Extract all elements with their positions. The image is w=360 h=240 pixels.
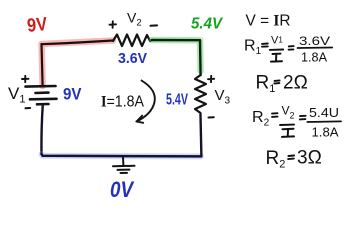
svg-text:5.4V: 5.4V xyxy=(166,92,188,109)
svg-text:I=1.8A: I=1.8A xyxy=(101,94,144,111)
wire: bottom rail (0V net, blue) xyxy=(42,154,202,156)
resistor R2 polarity + xyxy=(208,76,214,82)
svg-text:3.6V: 3.6V xyxy=(299,34,330,48)
resistor R1 (top, labelled V2 = 3.6V) zigzag xyxy=(113,35,152,47)
svg-text:0V: 0V xyxy=(110,177,135,202)
resistor R2 polarity - xyxy=(209,116,214,118)
svg-text:3Ω: 3Ω xyxy=(297,148,322,169)
svg-text:9V: 9V xyxy=(26,14,48,37)
current direction arrow (clockwise arc) xyxy=(137,81,155,123)
equation R1 = 2 ohm xyxy=(256,73,308,96)
wire: right vertical bottom (resistor R2 to bottom rail) xyxy=(199,115,202,156)
svg-text:3.6V: 3.6V xyxy=(118,50,147,67)
resistor R1 polarity + xyxy=(110,21,117,28)
battery V1 polarity - xyxy=(26,107,31,109)
equation R1 = V1/I = 3.6V/1.8A xyxy=(244,34,332,65)
svg-text:1.8A: 1.8A xyxy=(312,125,339,140)
wire: top-right horizontal + right vertical top (5.4V net, green highlighter) xyxy=(152,40,201,75)
svg-text:9V: 9V xyxy=(63,85,82,104)
battery V1 polarity + xyxy=(22,76,29,82)
wire: left vertical bottom (battery minus to bottom rail) xyxy=(41,104,42,154)
equation R2 = 3 ohm xyxy=(266,148,322,171)
svg-text:5.4U: 5.4U xyxy=(309,105,339,120)
resistor R2 (right, labelled V3 = 5.4V) zigzag xyxy=(195,75,206,115)
wire: top-left horizontal + left vertical (9V net, red highlighter) xyxy=(42,41,114,87)
battery V1 xyxy=(26,86,57,104)
svg-text:V = IR: V = IR xyxy=(246,13,291,30)
svg-text:1.8A: 1.8A xyxy=(301,50,327,65)
svg-text:2Ω: 2Ω xyxy=(283,73,308,94)
resistor R1 polarity - xyxy=(151,24,158,26)
ground xyxy=(113,157,135,173)
equation R2 = V2/I = 5.4V/1.8A xyxy=(252,104,341,140)
svg-text:5.4V: 5.4V xyxy=(191,16,223,33)
